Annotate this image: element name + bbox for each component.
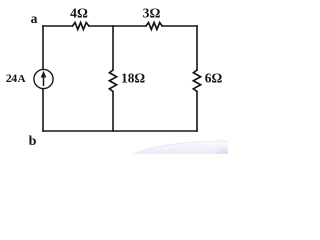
svg-text:24: 24 [6, 71, 17, 85]
svg-text:6Ω: 6Ω [205, 70, 223, 85]
svg-text:3Ω: 3Ω [143, 6, 161, 21]
svg-text:b: b [29, 134, 37, 149]
svg-text:a: a [31, 11, 38, 26]
svg-text:4Ω: 4Ω [70, 6, 88, 21]
svg-text:A: A [18, 73, 26, 85]
svg-text:18Ω: 18Ω [121, 70, 145, 85]
